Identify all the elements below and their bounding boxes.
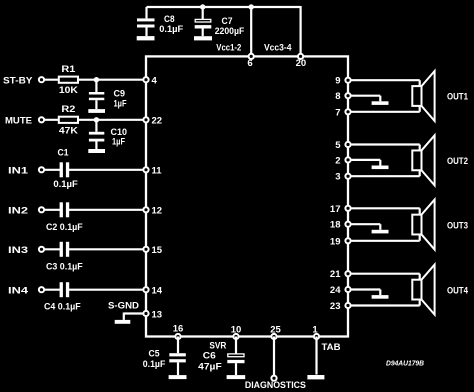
node supply junction to pin 6 xyxy=(249,4,254,9)
node C10 junction xyxy=(94,117,99,122)
ground (OUT1 return) xyxy=(372,101,389,105)
pin 20 xyxy=(296,54,307,69)
svg-text:0.1µF: 0.1µF xyxy=(159,24,183,35)
svg-text:23: 23 xyxy=(330,301,341,312)
label OUT1 xyxy=(447,92,469,103)
pin 9 xyxy=(335,76,350,87)
svg-text:20: 20 xyxy=(296,58,307,69)
wire C1 to pin 11 xyxy=(69,169,147,171)
wire pin 13 to ground xyxy=(124,313,146,320)
label C2 value xyxy=(46,222,83,233)
pin 10 xyxy=(231,325,242,340)
terminal MUTE xyxy=(39,117,44,122)
label OUT2 xyxy=(447,156,468,167)
pin 8 xyxy=(335,91,350,102)
svg-text:8: 8 xyxy=(335,91,340,102)
pin 1 xyxy=(312,325,319,340)
pin 11 xyxy=(143,166,162,177)
wire pin 3 to speaker OUT2 xyxy=(350,170,419,176)
ground (C6) xyxy=(227,375,246,379)
label Vcc1-2 xyxy=(216,43,241,54)
wire IN3 input xyxy=(44,248,60,250)
wire pin 24 to ground xyxy=(350,290,380,296)
svg-text:12: 12 xyxy=(152,206,163,217)
svg-text:21: 21 xyxy=(330,269,341,280)
svg-text:D94AU179B: D94AU179B xyxy=(386,359,425,368)
pin 15 xyxy=(143,245,162,256)
label OUT3 xyxy=(447,220,468,231)
pin 14 xyxy=(143,286,162,297)
svg-text:14: 14 xyxy=(152,286,163,297)
ground (C8) xyxy=(137,36,155,40)
pin 22 xyxy=(143,116,162,127)
svg-text:C1: C1 xyxy=(58,147,70,158)
svg-text:47K: 47K xyxy=(59,125,78,136)
pin 3 xyxy=(335,172,350,183)
wire C2 to pin 12 xyxy=(69,209,147,211)
svg-text:2200µF: 2200µF xyxy=(215,26,245,37)
ground (OUT4 return) xyxy=(372,295,389,299)
capacitor C8 xyxy=(137,7,155,36)
terminal IN3 xyxy=(39,247,44,252)
label R2 xyxy=(59,104,78,136)
label IN1 xyxy=(8,166,29,177)
capacitor C1 xyxy=(60,162,70,177)
svg-text:19: 19 xyxy=(330,236,341,247)
wire pin 25 to DIAGNOSTICS xyxy=(273,337,275,376)
label C7 value xyxy=(215,16,245,37)
wire pin 9 to speaker OUT1 xyxy=(350,80,419,86)
svg-text:IN2: IN2 xyxy=(8,206,28,217)
wire pin 17 to speaker OUT3 xyxy=(350,208,419,214)
wire pin 5 to speaker OUT2 xyxy=(350,145,419,151)
svg-text:7: 7 xyxy=(335,107,340,118)
speaker OUT3 cone xyxy=(422,200,435,250)
pin 21 xyxy=(330,269,351,280)
svg-text:1µF: 1µF xyxy=(114,98,127,109)
terminal DIAGNOSTICS xyxy=(271,376,276,381)
label MUTE xyxy=(5,116,32,127)
wire IN4 input xyxy=(44,289,60,291)
svg-text:OUT2: OUT2 xyxy=(447,156,468,167)
svg-text:MUTE: MUTE xyxy=(5,116,32,127)
ground (TAB) xyxy=(307,375,324,379)
svg-text:9: 9 xyxy=(335,76,340,87)
label DIAGNOSTICS xyxy=(245,380,306,391)
label C1 value xyxy=(53,147,78,190)
pin 25 xyxy=(270,325,281,340)
label C8 value xyxy=(159,14,183,35)
label IN3 xyxy=(8,245,28,256)
svg-text:R2: R2 xyxy=(61,104,75,115)
svg-text:3: 3 xyxy=(335,172,340,183)
svg-text:0.1µF: 0.1µF xyxy=(53,179,78,190)
speaker OUT1 driver xyxy=(412,86,421,106)
label C3 value xyxy=(46,261,83,272)
node C7 junction xyxy=(200,4,205,9)
speaker OUT2 driver xyxy=(412,150,421,170)
svg-text:18: 18 xyxy=(330,220,341,231)
label C6 value xyxy=(198,351,222,373)
svg-text:11: 11 xyxy=(152,166,163,177)
pin 5 xyxy=(335,140,350,151)
speaker OUT4 driver xyxy=(412,280,421,300)
wire pin 19 to speaker OUT3 xyxy=(350,234,419,240)
pin 19 xyxy=(330,236,351,247)
terminal IN2 xyxy=(39,207,44,212)
label C9 value xyxy=(114,89,127,110)
ground (C9) xyxy=(88,109,105,113)
resistor R1 xyxy=(59,77,78,83)
label C4 value xyxy=(44,302,81,313)
capacitor C5 xyxy=(169,337,186,376)
svg-text:6: 6 xyxy=(247,58,252,69)
label OUT4 xyxy=(447,285,469,296)
label IN2 xyxy=(8,206,28,217)
svg-text:DIAGNOSTICS: DIAGNOSTICS xyxy=(245,380,306,391)
node C9 junction xyxy=(94,77,99,82)
label SVR xyxy=(209,340,226,351)
terminal IN4 xyxy=(39,287,44,292)
wire MUTE to pin 22 xyxy=(44,119,146,121)
pin 2 xyxy=(335,155,350,166)
pin 16 xyxy=(173,324,184,340)
svg-text:S-GND: S-GND xyxy=(108,300,139,311)
svg-text:IN1: IN1 xyxy=(8,166,29,177)
svg-text:Vcc1-2: Vcc1-2 xyxy=(216,43,241,54)
wire pin 2 to ground xyxy=(350,160,380,166)
svg-text:IN3: IN3 xyxy=(8,245,28,256)
wire pin 18 to ground xyxy=(350,224,380,230)
wire IN2 input xyxy=(44,209,60,211)
wire pin 7 to speaker OUT1 xyxy=(350,106,419,112)
svg-text:10: 10 xyxy=(231,325,242,336)
svg-text:13: 13 xyxy=(152,309,163,320)
capacitor C7 (electrolytic) xyxy=(195,7,212,36)
svg-text:OUT1: OUT1 xyxy=(447,92,469,103)
wire pin 8 to ground xyxy=(350,96,380,102)
pin 18 xyxy=(330,220,351,231)
label ST-BY xyxy=(3,76,33,87)
pin 7 xyxy=(335,107,350,118)
capacitor C9 xyxy=(89,80,104,109)
svg-text:4: 4 xyxy=(152,76,158,87)
pin 12 xyxy=(143,206,162,217)
svg-text:0.1µF: 0.1µF xyxy=(143,359,166,370)
svg-text:C5: C5 xyxy=(149,348,161,359)
svg-text:ST-BY: ST-BY xyxy=(3,76,33,87)
svg-text:1µF: 1µF xyxy=(112,137,125,148)
svg-text:C2 0.1µF: C2 0.1µF xyxy=(46,222,83,233)
svg-text:OUT4: OUT4 xyxy=(447,285,469,296)
svg-text:C6: C6 xyxy=(203,351,216,362)
svg-text:16: 16 xyxy=(173,324,184,335)
label IN4 xyxy=(8,286,29,297)
svg-text:1: 1 xyxy=(312,325,318,336)
wire C4 to pin 14 xyxy=(69,289,147,291)
speaker OUT4 cone xyxy=(422,265,435,315)
label R1 xyxy=(59,64,78,96)
op-amp U1 TDA power amplifier body xyxy=(146,56,348,336)
capacitor C4 xyxy=(60,282,70,297)
svg-text:C3 0.1µF: C3 0.1µF xyxy=(46,261,83,272)
ground (C10) xyxy=(88,149,105,153)
capacitor C10 xyxy=(89,120,104,149)
resistor R2 xyxy=(59,117,78,123)
pin 6 xyxy=(247,54,253,69)
svg-text:25: 25 xyxy=(270,325,281,336)
svg-text:R1: R1 xyxy=(61,64,76,75)
svg-text:5: 5 xyxy=(335,140,341,151)
svg-text:OUT3: OUT3 xyxy=(447,220,468,231)
ground (OUT2 return) xyxy=(372,166,389,170)
speaker OUT1 cone xyxy=(422,71,435,121)
capacitor C2 xyxy=(60,202,70,217)
label S-GND xyxy=(108,300,139,311)
ground S-GND xyxy=(115,320,131,324)
wire C3 to pin 15 xyxy=(69,248,147,250)
speaker OUT3 driver xyxy=(412,215,421,235)
svg-text:47µF: 47µF xyxy=(198,361,222,372)
pin 17 xyxy=(330,204,351,215)
ground (OUT3 return) xyxy=(372,230,389,234)
svg-text:TAB: TAB xyxy=(322,342,341,353)
wire pin 21 to speaker OUT4 xyxy=(350,274,419,280)
label drawing number xyxy=(386,359,425,368)
pin 24 xyxy=(330,285,351,296)
svg-text:10K: 10K xyxy=(59,85,78,96)
label C10 value xyxy=(111,127,128,148)
wire IN1 input xyxy=(44,169,60,171)
ground (C5) xyxy=(169,375,187,379)
wire top supply rail xyxy=(147,6,301,56)
wire pin 23 to speaker OUT4 xyxy=(350,300,419,306)
pin 4 xyxy=(143,76,157,87)
svg-text:IN4: IN4 xyxy=(8,286,29,297)
terminal ST-BY xyxy=(39,77,44,82)
svg-text:C4 0.1µF: C4 0.1µF xyxy=(44,302,81,313)
terminal IN1 xyxy=(39,167,44,172)
wire ST-BY to pin 4 xyxy=(44,79,146,81)
svg-text:24: 24 xyxy=(330,285,341,296)
svg-text:17: 17 xyxy=(330,204,341,215)
svg-text:Vcc3-4: Vcc3-4 xyxy=(264,43,292,54)
svg-text:22: 22 xyxy=(152,116,163,127)
speaker OUT2 cone xyxy=(422,135,435,185)
label C5 value xyxy=(143,348,166,370)
pin 23 xyxy=(330,301,351,312)
capacitor C3 xyxy=(60,242,70,257)
svg-text:2: 2 xyxy=(335,155,340,166)
capacitor C6 (electrolytic) xyxy=(227,337,244,376)
label TAB xyxy=(322,342,341,353)
label Vcc3-4 xyxy=(264,43,292,54)
wire pin 1 to ground xyxy=(315,337,317,375)
ground (C7) xyxy=(194,36,212,40)
svg-text:15: 15 xyxy=(152,245,163,256)
pin 13 xyxy=(143,309,162,320)
